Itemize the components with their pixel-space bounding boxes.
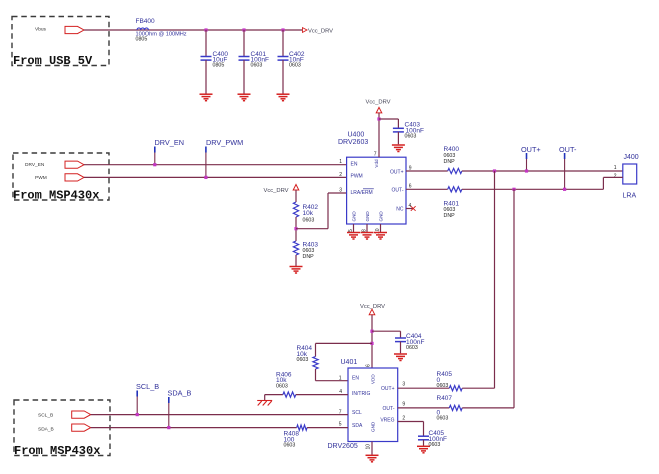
wire Vcc to U401 VDD bbox=[371, 315, 373, 368]
svg-text:0603: 0603 bbox=[429, 442, 441, 448]
svg-text:SCL_B: SCL_B bbox=[38, 413, 53, 419]
svg-text:0603: 0603 bbox=[289, 63, 301, 69]
svg-text:OUT+: OUT+ bbox=[390, 169, 404, 175]
wire R407 to OUT- riser bbox=[462, 407, 514, 409]
capacitor C404 bbox=[395, 338, 406, 342]
svg-text:6: 6 bbox=[366, 364, 372, 367]
wire tap to U400 pin3 bbox=[296, 228, 328, 230]
wire Vcc to U400 VDD pin7 bbox=[378, 113, 380, 157]
wire R406 to U401 pin4 bbox=[296, 394, 348, 396]
net tick DRV_EN bbox=[154, 147, 156, 153]
svg-text:PWM: PWM bbox=[35, 175, 47, 181]
capacitor C403 bbox=[393, 128, 404, 132]
node junction R404 branch bbox=[370, 342, 373, 345]
svg-text:From MSP430x: From MSP430x bbox=[14, 444, 100, 458]
net tick SCL_B bbox=[136, 391, 138, 397]
wire U401 OUT- to R407 bbox=[398, 407, 450, 409]
U401 bottom GND stub bbox=[371, 442, 373, 455]
node junction R402/R403 tap bbox=[294, 227, 297, 230]
svg-text:9: 9 bbox=[402, 401, 405, 407]
resistor R400 bbox=[448, 168, 462, 173]
resistor R402 bbox=[293, 202, 298, 217]
svg-text:VDD: VDD bbox=[371, 374, 376, 384]
svg-text:0603: 0603 bbox=[251, 63, 263, 69]
svg-text:DNP: DNP bbox=[303, 254, 315, 260]
svg-text:GND: GND bbox=[371, 421, 376, 432]
svg-text:0603: 0603 bbox=[297, 357, 309, 363]
wire U401 OUT+ to R405 bbox=[398, 387, 450, 389]
capacitor C401 bbox=[243, 30, 245, 57]
ground for C405 bbox=[417, 446, 430, 453]
svg-text:GND: GND bbox=[352, 211, 357, 222]
svg-text:R407: R407 bbox=[437, 395, 453, 402]
svg-text:5: 5 bbox=[339, 422, 342, 428]
svg-text:OUT+: OUT+ bbox=[381, 386, 395, 392]
dashed box: From USB 5V bbox=[12, 17, 109, 66]
capacitor C400 bbox=[205, 30, 207, 57]
port SCL_B bbox=[72, 411, 91, 418]
net tick OUT- bbox=[564, 153, 566, 159]
svg-text:0603: 0603 bbox=[437, 416, 449, 422]
resistor R407 bbox=[449, 405, 462, 410]
ground for C400 bbox=[200, 94, 213, 101]
op-amp U401 DRV2605 body bbox=[348, 368, 398, 442]
svg-text:Vcc_DRV: Vcc_DRV bbox=[366, 100, 391, 106]
node junction C403 branch bbox=[377, 117, 380, 120]
resistor R404 bbox=[313, 357, 318, 370]
svg-text:EN: EN bbox=[352, 375, 359, 381]
svg-text:DRV2603: DRV2603 bbox=[338, 139, 368, 146]
node junction C401 bbox=[242, 28, 245, 31]
wire U401 VREG to C405 bbox=[398, 421, 424, 423]
dashed box: From MSP430x (top) bbox=[13, 153, 109, 200]
svg-text:From USB 5V: From USB 5V bbox=[13, 54, 93, 68]
svg-text:R400: R400 bbox=[444, 146, 460, 153]
svg-text:1: 1 bbox=[339, 159, 342, 165]
ground for C402 bbox=[277, 94, 290, 101]
node junction OUT- / R407 riser bbox=[512, 188, 515, 191]
svg-text:LRA: LRA bbox=[623, 193, 637, 200]
svg-text:0603: 0603 bbox=[284, 443, 296, 449]
svg-text:GND: GND bbox=[365, 211, 370, 222]
wire J400 pin2 jog bbox=[602, 177, 604, 189]
port SDA_B bbox=[72, 424, 91, 431]
svg-text:Vcc_DRV: Vcc_DRV bbox=[264, 188, 289, 194]
node junction C400 bbox=[204, 28, 207, 31]
node junction C404 branch bbox=[370, 330, 373, 333]
svg-text:10: 10 bbox=[366, 444, 372, 450]
ground for U400 pin10 bbox=[374, 233, 387, 240]
svg-text:2: 2 bbox=[339, 172, 342, 178]
wire gnd to R406 bbox=[265, 394, 283, 396]
svg-text:LRA/ERM: LRA/ERM bbox=[351, 190, 373, 196]
svg-text:SCL_B: SCL_B bbox=[136, 382, 159, 391]
net tick SDA_B bbox=[168, 397, 170, 403]
svg-text:OUT-: OUT- bbox=[559, 145, 577, 154]
svg-text:VREG: VREG bbox=[380, 417, 394, 423]
port PWM bbox=[65, 174, 84, 181]
connector J400 body bbox=[623, 164, 637, 184]
wire SDA_B to R408 bbox=[91, 427, 297, 429]
svg-text:Vdd: Vdd bbox=[374, 159, 379, 168]
svg-text:J400: J400 bbox=[624, 154, 639, 161]
svg-text:U401: U401 bbox=[341, 359, 358, 366]
svg-text:0603: 0603 bbox=[437, 383, 449, 389]
resistor R405 bbox=[449, 386, 462, 391]
svg-text:DNP: DNP bbox=[444, 159, 456, 165]
svg-text:EN: EN bbox=[351, 161, 358, 167]
svg-text:IN/TRIG: IN/TRIG bbox=[352, 391, 370, 397]
ground for R403 bbox=[290, 267, 303, 274]
svg-text:3: 3 bbox=[402, 381, 405, 387]
resistor R401 bbox=[448, 187, 462, 192]
svg-text:7: 7 bbox=[374, 152, 377, 158]
svg-text:DRV_PWM: DRV_PWM bbox=[206, 138, 243, 147]
svg-text:Vcc_DRV: Vcc_DRV bbox=[308, 28, 333, 34]
svg-text:10k: 10k bbox=[303, 210, 314, 217]
svg-text:3: 3 bbox=[339, 188, 342, 194]
svg-text:NC: NC bbox=[396, 206, 404, 212]
svg-text:0603: 0603 bbox=[303, 218, 315, 224]
wire U400 OUT+ to R400 bbox=[406, 170, 448, 172]
wire R401 to J400 pin2 elbow bbox=[462, 188, 604, 190]
svg-text:1: 1 bbox=[614, 165, 617, 171]
wire R402 to R403 bbox=[295, 217, 297, 241]
svg-text:0603: 0603 bbox=[406, 345, 418, 351]
svg-text:U400: U400 bbox=[348, 132, 365, 139]
svg-text:From MSP430x: From MSP430x bbox=[13, 189, 99, 203]
svg-text:DRV2605: DRV2605 bbox=[328, 443, 358, 450]
svg-text:GND: GND bbox=[379, 211, 384, 222]
U400 NC pin stub bbox=[406, 208, 413, 210]
capacitor C402 bbox=[282, 30, 284, 57]
net tick DRV_PWM bbox=[205, 147, 207, 153]
svg-text:SDA_B: SDA_B bbox=[168, 389, 192, 398]
wire DRV_EN to U400 pin1 bbox=[84, 164, 347, 166]
svg-text:0603: 0603 bbox=[405, 133, 417, 139]
svg-text:2: 2 bbox=[402, 415, 405, 421]
svg-text:1: 1 bbox=[339, 375, 342, 381]
U400 bottom GND stubs bbox=[353, 224, 355, 232]
wire U400 OUT- to R401 bbox=[406, 188, 448, 190]
svg-text:DNP: DNP bbox=[444, 213, 456, 219]
wire PWM to U400 pin2 bbox=[84, 176, 347, 178]
net tick OUT+ bbox=[526, 153, 528, 159]
node junction OUT+ / R405 riser bbox=[493, 169, 496, 172]
svg-text:SCL: SCL bbox=[352, 410, 362, 416]
wire R408 to U401 pin5 bbox=[307, 427, 348, 429]
wire riser OUT+ down to R405 bbox=[494, 171, 496, 388]
svg-text:0805: 0805 bbox=[213, 63, 225, 69]
resistor R403 bbox=[293, 241, 298, 255]
no-connect X on pin 4 bbox=[411, 206, 416, 211]
svg-text:SDA: SDA bbox=[352, 423, 363, 429]
wire riser OUT- down to R407 bbox=[513, 189, 515, 408]
svg-text:OUT+: OUT+ bbox=[521, 145, 541, 154]
wire to C404 bbox=[372, 330, 401, 332]
wire to C403 bbox=[379, 118, 398, 120]
ground for U401 GND bbox=[366, 455, 379, 462]
net Vcc_DRV off-page arrow bbox=[303, 28, 308, 33]
earth ground for R406 bbox=[264, 395, 266, 400]
svg-text:SDA_B: SDA_B bbox=[38, 427, 54, 433]
wire R400 to J400 pin1 bbox=[462, 170, 623, 172]
capacitor C405 bbox=[418, 436, 429, 440]
ground for C403 bbox=[392, 145, 405, 152]
svg-text:OUT-: OUT- bbox=[392, 187, 404, 193]
ferrite bead FB400 bbox=[137, 28, 148, 30]
wire to R404 bbox=[316, 342, 373, 344]
node junction C402 bbox=[281, 28, 284, 31]
port DRV_EN bbox=[65, 161, 84, 168]
svg-text:DRV_EN: DRV_EN bbox=[25, 162, 45, 168]
svg-text:Vbus: Vbus bbox=[35, 27, 47, 33]
ground for U400 pin5 bbox=[347, 233, 360, 240]
svg-text:0603: 0603 bbox=[276, 383, 288, 389]
ground for C401 bbox=[238, 94, 251, 101]
ground for U400 pin8 bbox=[361, 233, 374, 240]
svg-text:OUT-: OUT- bbox=[383, 406, 395, 412]
dashed box: From MSP430x (bottom) bbox=[14, 400, 110, 456]
svg-text:PWM: PWM bbox=[351, 173, 363, 179]
wire R403 to ground bbox=[295, 255, 297, 266]
svg-text:2: 2 bbox=[614, 173, 617, 179]
port Vbus bbox=[65, 26, 84, 33]
svg-text:DRV_EN: DRV_EN bbox=[155, 138, 184, 147]
svg-text:FB400: FB400 bbox=[136, 18, 156, 25]
resistor R408 bbox=[297, 425, 307, 430]
svg-text:Vcc_DRV: Vcc_DRV bbox=[360, 304, 385, 310]
op-amp U400 DRV2603 body bbox=[347, 157, 406, 224]
ground for C404 bbox=[394, 354, 407, 361]
resistor R406 bbox=[283, 392, 296, 397]
wire R405 to OUT+ riser bbox=[462, 387, 494, 389]
wire Vbus to Vcc_DRV bbox=[84, 29, 302, 31]
wire R404 to U401 pin1 bbox=[315, 369, 317, 381]
svg-text:0805: 0805 bbox=[136, 37, 148, 43]
wire SCL_B to U401 pin7 bbox=[91, 414, 348, 416]
svg-text:6: 6 bbox=[409, 184, 412, 190]
